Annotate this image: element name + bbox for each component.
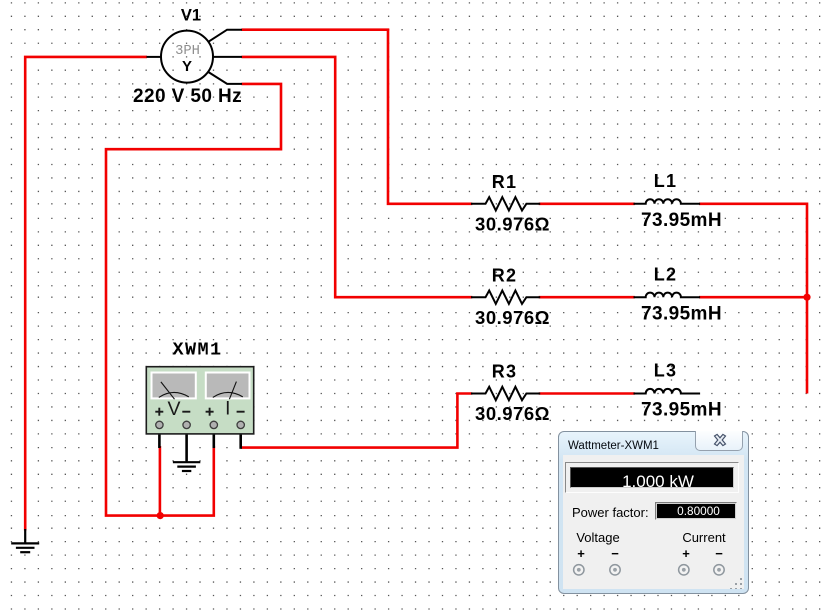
svg-text:L2: L2 — [654, 265, 677, 285]
svg-text:30.976Ω: 30.976Ω — [475, 403, 550, 424]
svg-text:30.976Ω: 30.976Ω — [475, 307, 550, 328]
svg-text:XWM1: XWM1 — [172, 340, 222, 361]
svg-text:220 V 50 Hz: 220 V 50 Hz — [133, 86, 242, 107]
svg-text:V: V — [167, 398, 180, 420]
svg-text:I: I — [225, 399, 230, 420]
svg-text:Y: Y — [182, 58, 192, 75]
svg-text:30.976Ω: 30.976Ω — [475, 214, 550, 235]
svg-text:R1: R1 — [492, 172, 517, 192]
svg-text:V1: V1 — [181, 7, 201, 25]
svg-text:73.95mH: 73.95mH — [641, 304, 722, 325]
svg-text:3PH: 3PH — [175, 44, 200, 59]
svg-text:L1: L1 — [654, 171, 677, 191]
svg-text:R2: R2 — [492, 266, 517, 286]
svg-text:73.95mH: 73.95mH — [641, 210, 722, 231]
svg-text:73.95mH: 73.95mH — [641, 400, 722, 421]
svg-text:R3: R3 — [492, 362, 517, 382]
svg-text:L3: L3 — [654, 361, 677, 381]
